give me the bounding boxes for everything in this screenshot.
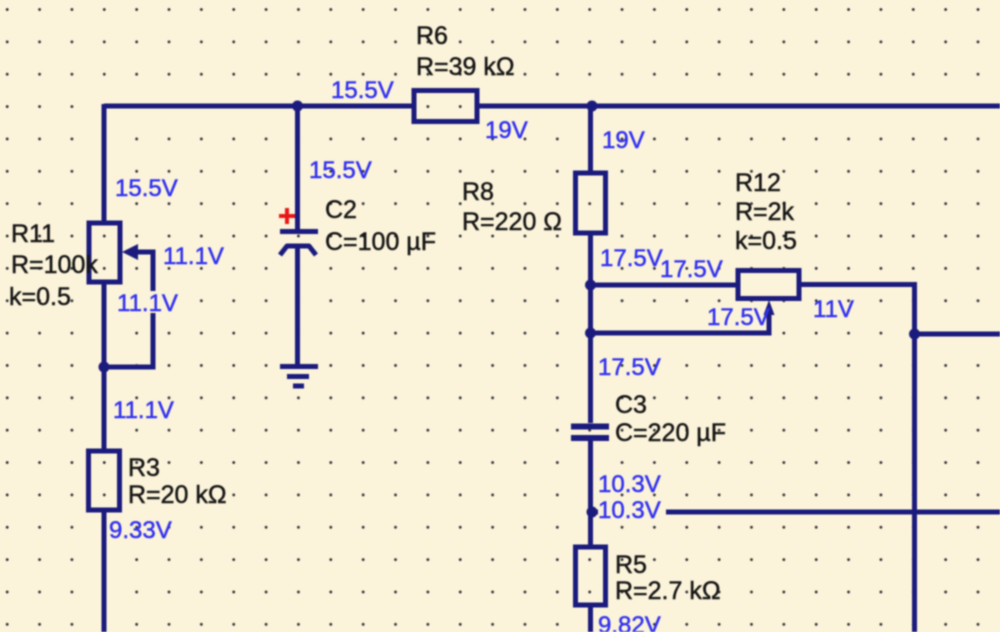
svg-text:R3: R3 <box>128 454 160 482</box>
svg-text:R5: R5 <box>615 551 647 579</box>
resistor R11 (potentiometer body) <box>89 223 120 282</box>
svg-text:R12: R12 <box>735 169 781 197</box>
resistor R12 (potentiometer body) <box>738 271 799 299</box>
svg-text:19V: 19V <box>485 117 528 144</box>
junction node right <box>909 329 920 340</box>
resistor R5 <box>576 547 606 605</box>
svg-text:15.5V: 15.5V <box>115 175 178 202</box>
svg-text:C3: C3 <box>615 391 647 419</box>
svg-text:19V: 19V <box>602 127 645 154</box>
wire right vertical down <box>912 334 917 632</box>
svg-text:R=20 kΩ: R=20 kΩ <box>128 481 227 509</box>
R11 wiper arrowhead <box>122 244 138 260</box>
svg-text:R8: R8 <box>462 178 494 206</box>
wire R8 bottom vertical run <box>588 233 593 423</box>
svg-text:C2: C2 <box>325 196 357 224</box>
svg-text:10.3V: 10.3V <box>598 497 661 524</box>
svg-text:C=220 µF: C=220 µF <box>615 419 726 447</box>
junction node wiper bottom <box>585 328 596 339</box>
svg-text:11.1V: 11.1V <box>113 397 174 424</box>
resistor R8 <box>576 173 606 233</box>
wire junction right to edge <box>915 332 1000 337</box>
junction node mid <box>587 507 598 518</box>
wire mid horizontal to right edge <box>592 510 1000 515</box>
wire C2 to ground <box>295 246 300 364</box>
junction node C2 branch <box>292 101 303 112</box>
capacitor C2 curved plate <box>280 246 316 255</box>
svg-text:R=2k: R=2k <box>735 198 795 226</box>
svg-text:15.5V: 15.5V <box>309 157 372 184</box>
svg-text:17.5V: 17.5V <box>660 256 723 283</box>
wire R11 wiper <box>104 252 153 367</box>
plus sign C2 polarity <box>279 208 295 224</box>
wire wiper R12 bottom run <box>591 312 770 333</box>
wire left vertical upper <box>102 104 107 223</box>
capacitor C2 top plate <box>280 229 318 234</box>
wire R8 top <box>588 106 593 173</box>
wire R12 right with corner <box>799 285 915 335</box>
wire R12 left <box>591 283 739 288</box>
svg-text:10.3V: 10.3V <box>598 471 661 498</box>
wire C2 branch vertical <box>295 104 300 229</box>
svg-text:15.5V: 15.5V <box>331 77 394 104</box>
wire R6 right to edge <box>477 104 1000 109</box>
svg-text:R=39 kΩ: R=39 kΩ <box>416 53 515 81</box>
junction node R8 top <box>587 101 598 112</box>
svg-text:17.5V: 17.5V <box>600 245 663 272</box>
ground <box>280 367 318 387</box>
wire top horizontal <box>104 104 412 109</box>
junction node wiper return R11 <box>99 362 110 373</box>
svg-text:9.33V: 9.33V <box>109 517 172 544</box>
svg-text:R=2.7 kΩ: R=2.7 kΩ <box>615 577 721 605</box>
svg-text:C=100 µF: C=100 µF <box>325 228 436 256</box>
wire left vertical middle <box>102 282 107 451</box>
resistor R6 <box>414 91 477 122</box>
svg-text:R6: R6 <box>416 22 448 50</box>
svg-text:k=0.5: k=0.5 <box>735 227 797 255</box>
svg-text:11.1V: 11.1V <box>163 243 224 270</box>
svg-text:k=0.5: k=0.5 <box>9 283 71 311</box>
resistor R3 <box>89 451 120 510</box>
svg-text:R=100k: R=100k <box>11 251 98 279</box>
node voltage 10.3V b with background <box>598 497 666 524</box>
wire R5 bottom <box>588 605 593 632</box>
svg-text:17.5V: 17.5V <box>598 354 661 381</box>
svg-text:11V: 11V <box>813 296 854 323</box>
svg-text:9.82V: 9.82V <box>598 612 661 632</box>
svg-text:R11: R11 <box>11 220 55 248</box>
node voltage 11.1V below R11 <box>114 290 180 317</box>
wire C3 bottom vertical run <box>588 441 593 547</box>
R12 wiper arrowhead <box>764 300 775 315</box>
junction node R12 left <box>585 280 596 291</box>
svg-text:R=220 Ω: R=220 Ω <box>462 208 562 236</box>
svg-text:11.1V: 11.1V <box>117 290 178 317</box>
capacitor C3 plates <box>571 427 609 439</box>
svg-text:17.5V: 17.5V <box>707 304 770 331</box>
wire left vertical lower <box>102 510 107 632</box>
